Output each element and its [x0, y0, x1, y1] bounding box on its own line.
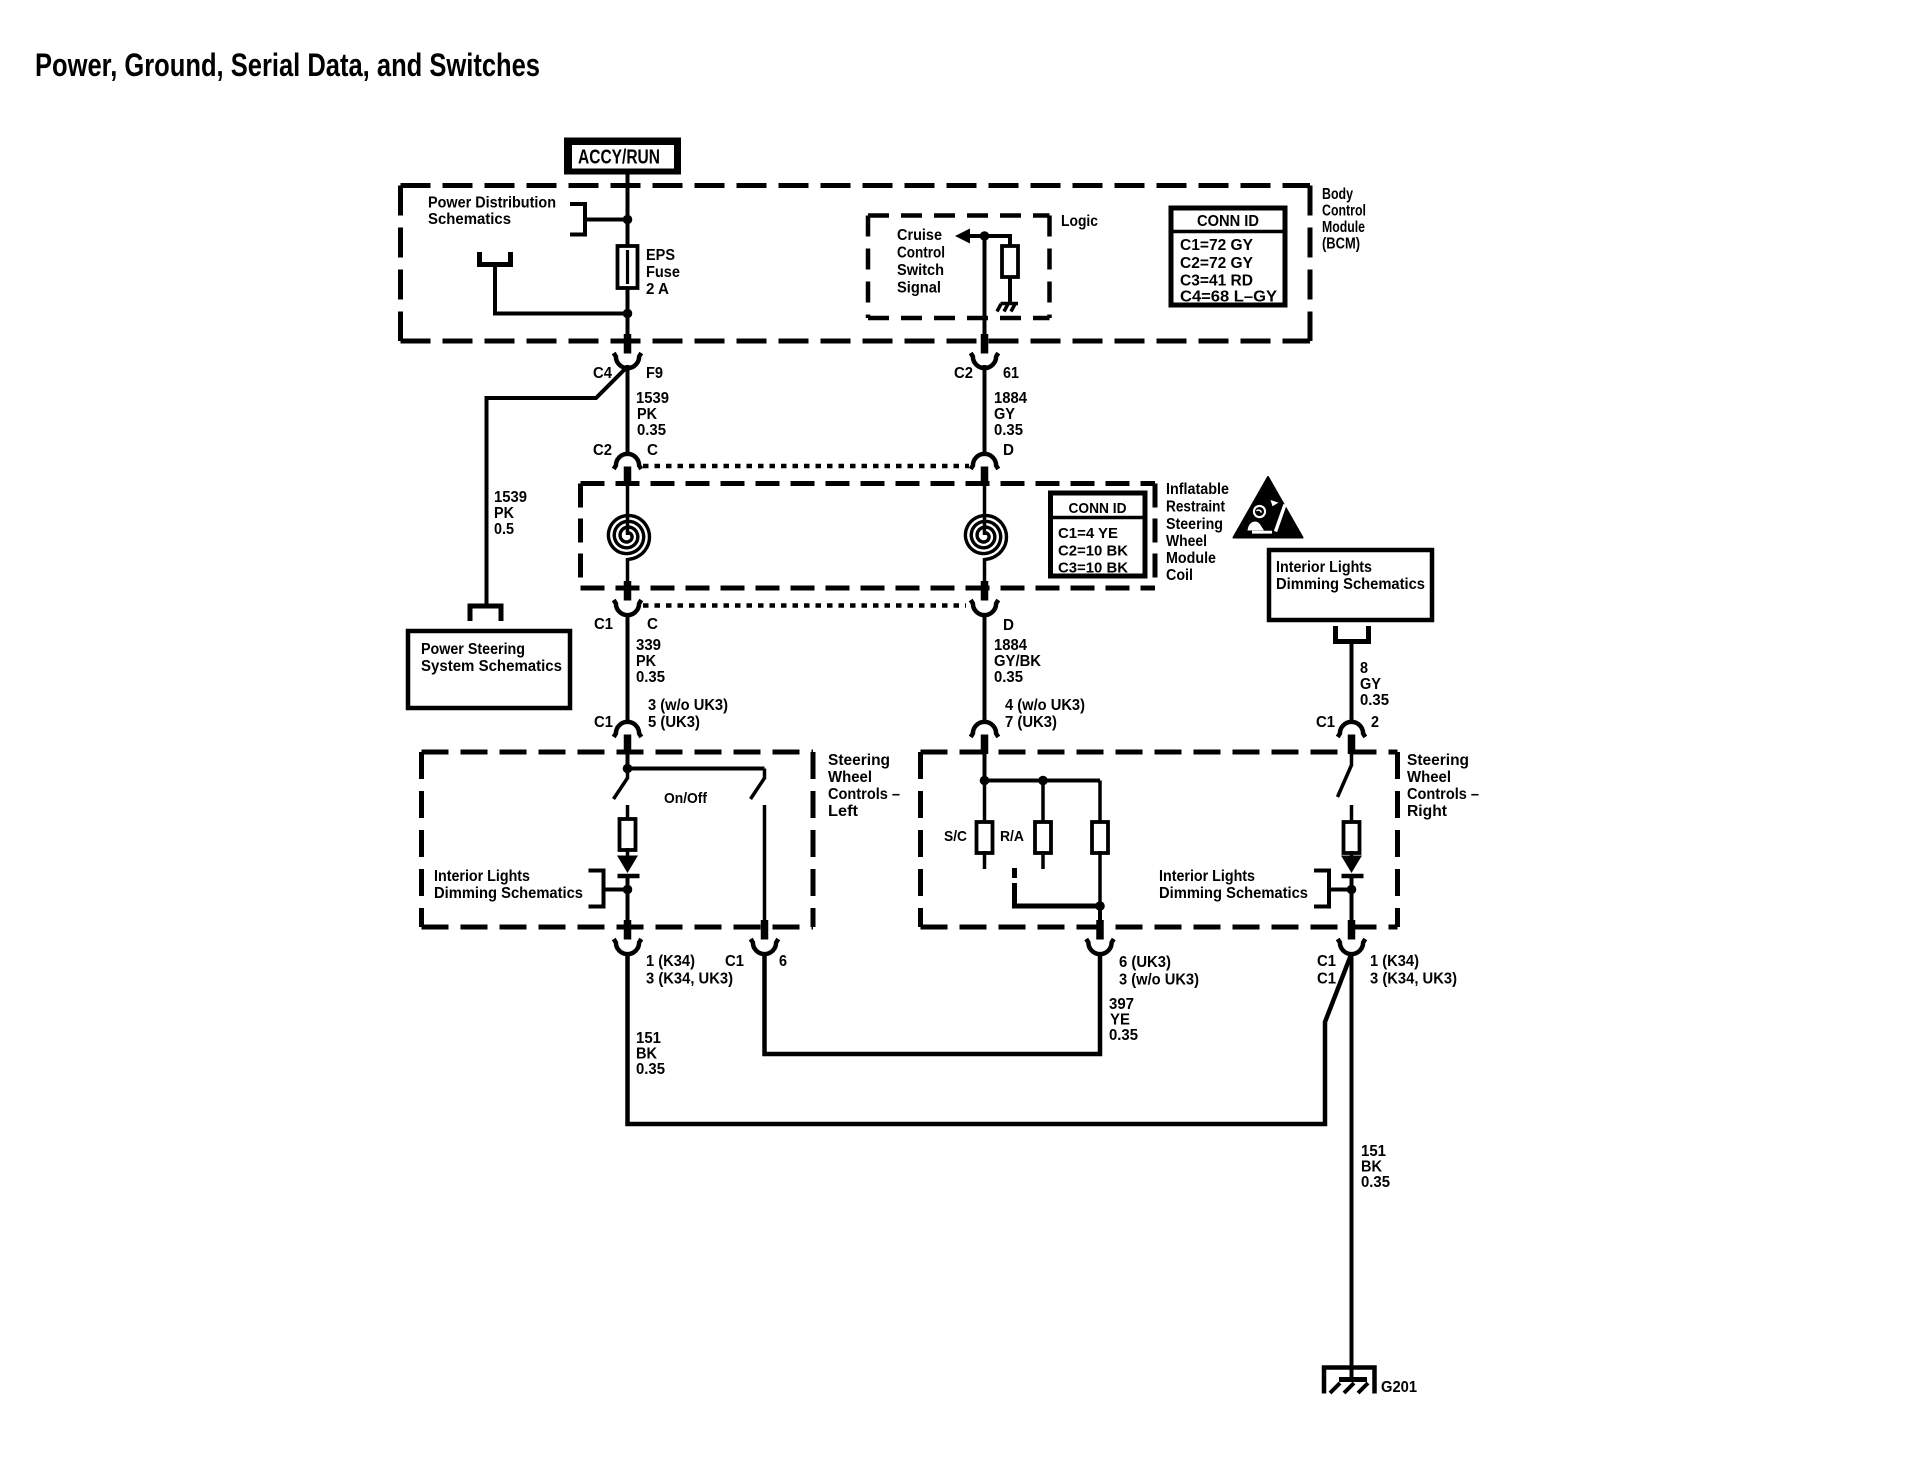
- svg-text:3 (w/o UK3): 3 (w/o UK3): [1119, 972, 1199, 989]
- svg-text:Steering: Steering: [1166, 516, 1223, 533]
- connector C4/F9 (pin): [624, 334, 632, 354]
- connector C2/61 (socket arc): [971, 353, 999, 368]
- wire out of right coil: [983, 558, 987, 586]
- coil (right spiral): [965, 516, 1006, 560]
- connector interface dotted line (bottom): [643, 603, 966, 608]
- wiper arrow: [1350, 851, 1354, 858]
- wire lower contact (right): [1350, 805, 1354, 823]
- wire feed right: [493, 312, 628, 316]
- bracket symbol (dimming left): [589, 871, 604, 907]
- svg-text:8: 8: [1360, 660, 1368, 677]
- svg-text:3 (K34, UK3): 3 (K34, UK3): [646, 971, 733, 988]
- svg-text:Switch: Switch: [897, 262, 944, 279]
- svg-text:6 (UK3): 6 (UK3): [1119, 954, 1171, 971]
- wire contact tick: [1012, 868, 1017, 878]
- wire into right coil: [983, 486, 987, 535]
- switch (right box blade): [1350, 753, 1354, 766]
- connector 4-7 (pin): [981, 735, 989, 755]
- CONN ID table (BCM): [1171, 208, 1285, 305]
- svg-text:0.35: 0.35: [1360, 692, 1389, 709]
- resistor R/A: [1035, 822, 1051, 853]
- svg-text:PK: PK: [637, 406, 657, 423]
- fuse EPS 2 A: [618, 246, 638, 288]
- svg-text:1539: 1539: [494, 489, 527, 506]
- wire resistor ladder bus: [985, 779, 1101, 783]
- svg-text:BK: BK: [1361, 1159, 1382, 1176]
- svg-text:C1: C1: [1316, 714, 1335, 731]
- connector left 1/3 (socket arc): [614, 939, 642, 954]
- svg-text:3 (w/o UK3): 3 (w/o UK3): [648, 697, 728, 714]
- wire second pole down: [763, 805, 767, 922]
- svg-text:ACCY/RUN: ACCY/RUN: [578, 147, 660, 169]
- svg-text:Steering: Steering: [828, 752, 890, 769]
- wire 8 GY 0.35: [1350, 641, 1354, 725]
- svg-text:Module: Module: [1166, 550, 1216, 567]
- svg-text:0.35: 0.35: [636, 1061, 665, 1078]
- bracket symbol (Power Distribution): [570, 204, 585, 235]
- off-page connector symbol (dimming): [1336, 626, 1369, 642]
- svg-text:Logic: Logic: [1061, 213, 1098, 230]
- connector C1/C (pin): [624, 581, 632, 601]
- svg-text:Controls –: Controls –: [1407, 786, 1479, 803]
- svg-text:339: 339: [636, 637, 661, 654]
- svg-text:0.35: 0.35: [1361, 1174, 1390, 1191]
- wire bracket to fuse node: [585, 218, 628, 222]
- svg-text:Right: Right: [1407, 803, 1448, 820]
- wire 1884 GY 0.35: [983, 365, 987, 455]
- svg-text:C: C: [647, 616, 658, 633]
- connector D (entry) (pin): [981, 467, 989, 487]
- svg-text:0.35: 0.35: [1109, 1027, 1138, 1044]
- connector C1/6 (pin): [761, 920, 769, 940]
- svg-text:0.35: 0.35: [994, 669, 1023, 686]
- connector C2/C (socket arc): [614, 454, 642, 469]
- wire 339 PK 0.35: [626, 613, 630, 724]
- svg-text:F9: F9: [646, 365, 663, 382]
- junction: [623, 764, 633, 774]
- svg-text:C: C: [647, 442, 658, 459]
- dashed box: Steering Wheel Controls - Right: [921, 752, 1398, 927]
- svg-text:C3=10 BK: C3=10 BK: [1058, 560, 1128, 577]
- wire R/A stub: [1041, 851, 1045, 869]
- svg-text:397: 397: [1109, 996, 1134, 1013]
- svg-text:CONN ID: CONN ID: [1197, 213, 1259, 230]
- svg-text:CONN ID: CONN ID: [1069, 500, 1127, 517]
- ground G201: [1324, 1368, 1375, 1394]
- junction: [980, 231, 990, 241]
- svg-text:GY: GY: [994, 406, 1015, 423]
- svg-text:C2=10 BK: C2=10 BK: [1058, 543, 1128, 560]
- svg-text:3 (K34, UK3): 3 (K34, UK3): [1370, 971, 1457, 988]
- svg-text:Control: Control: [1322, 203, 1366, 220]
- connector C1/6 (socket arc): [751, 939, 779, 954]
- svg-text:Coil: Coil: [1166, 567, 1193, 584]
- svg-text:Dimming Schematics: Dimming Schematics: [1276, 576, 1425, 593]
- svg-text:151: 151: [1361, 1143, 1386, 1160]
- wire S/C branch: [983, 781, 987, 824]
- wire entry to switch node: [626, 753, 630, 770]
- wire 1884 GY/BK 0.35: [983, 613, 987, 724]
- svg-text:Restraint: Restraint: [1166, 499, 1226, 516]
- junction: [1095, 901, 1105, 911]
- junction: [1347, 885, 1357, 895]
- svg-text:PK: PK: [494, 505, 514, 522]
- connector C4/F9 (socket arc): [614, 353, 642, 368]
- junction: [980, 776, 990, 786]
- connector C2/C (pin): [624, 467, 632, 487]
- svg-text:0.35: 0.35: [636, 669, 665, 686]
- switch On/Off (right blade): [763, 769, 767, 780]
- wire through fuse: [626, 246, 630, 336]
- bracket symbol (dimming right): [1314, 871, 1329, 907]
- connector 4-7 (socket arc): [971, 722, 999, 737]
- connector 6/3 (pin): [1096, 920, 1104, 940]
- connector C1/C (socket arc): [614, 600, 642, 615]
- svg-text:C1: C1: [1317, 971, 1336, 988]
- wire to exit: [1098, 906, 1102, 922]
- svg-text:Inflatable: Inflatable: [1166, 481, 1229, 498]
- wire 151 BK 0.35 (to G201): [1350, 953, 1354, 1380]
- svg-text:PK: PK: [636, 653, 656, 670]
- svg-text:EPS: EPS: [646, 247, 675, 264]
- svg-text:0.35: 0.35: [994, 422, 1023, 439]
- box Power Steering System Schematics: [408, 631, 570, 708]
- wire S/C stub: [983, 851, 987, 869]
- wire out of left coil: [626, 558, 630, 586]
- svg-text:Controls –: Controls –: [828, 786, 900, 803]
- svg-text:Body: Body: [1322, 186, 1353, 203]
- wire 151 BK 0.35 (left): [628, 953, 1352, 1125]
- svg-text:6: 6: [779, 953, 787, 970]
- svg-text:Interior Lights: Interior Lights: [1276, 559, 1372, 576]
- connector C1 right (socket arc): [1338, 939, 1366, 954]
- svg-text:Fuse: Fuse: [646, 264, 680, 281]
- junction: [623, 215, 633, 225]
- connector D (exit) (pin): [981, 581, 989, 601]
- warning symbol (airbag caution triangle): [1234, 477, 1303, 538]
- connector 6/3 (socket arc): [1086, 939, 1114, 954]
- svg-text:BK: BK: [636, 1046, 657, 1063]
- svg-text:1884: 1884: [994, 390, 1027, 407]
- svg-text:Cruise: Cruise: [897, 227, 942, 244]
- wire into left coil: [626, 486, 630, 535]
- svg-text:(BCM): (BCM): [1322, 236, 1360, 253]
- resistor dimmer (left): [620, 819, 636, 850]
- wire third branch: [1098, 781, 1102, 824]
- CONN ID table (coil module): [1051, 493, 1146, 576]
- svg-text:C4: C4: [593, 365, 612, 382]
- svg-text:Control: Control: [897, 245, 945, 262]
- signal arrow: [955, 229, 970, 244]
- wire entry D: [983, 753, 987, 782]
- svg-text:C1: C1: [725, 953, 744, 970]
- power feed box ACCY/RUN: [564, 138, 681, 175]
- svg-text:61: 61: [1003, 365, 1019, 382]
- svg-text:151: 151: [636, 1030, 661, 1047]
- svg-text:1884: 1884: [994, 637, 1027, 654]
- resistor logic pull-down: [1002, 246, 1018, 277]
- svg-text:C2=72 GY: C2=72 GY: [1180, 255, 1253, 272]
- svg-text:Wheel: Wheel: [1407, 769, 1451, 786]
- dashed box: Logic: [868, 216, 1050, 319]
- svg-text:D: D: [1003, 442, 1014, 459]
- resistor S/C: [977, 822, 993, 853]
- wire wiper down: [1350, 876, 1354, 922]
- svg-text:YE: YE: [1110, 1012, 1130, 1029]
- connector interface dotted line (top): [643, 464, 969, 469]
- switch On/Off (left blade): [626, 769, 630, 780]
- svg-text:G201: G201: [1381, 1379, 1417, 1396]
- svg-text:C1: C1: [594, 714, 613, 731]
- svg-text:Signal: Signal: [897, 280, 941, 297]
- wiper bar: [1342, 874, 1364, 879]
- svg-text:Power Distribution: Power Distribution: [428, 195, 556, 212]
- svg-text:R/A: R/A: [1000, 828, 1024, 845]
- svg-text:1539: 1539: [636, 390, 669, 407]
- wire ACCY/RUN to fuse: [626, 174, 630, 248]
- svg-text:1 (K34): 1 (K34): [646, 953, 695, 970]
- svg-text:C1: C1: [594, 616, 613, 633]
- svg-text:Interior Lights: Interior Lights: [1159, 868, 1255, 885]
- wire bracket to wiper: [1329, 888, 1352, 892]
- svg-text:Dimming Schematics: Dimming Schematics: [1159, 885, 1308, 902]
- wire arrow to resistor: [968, 234, 1010, 238]
- svg-text:4 (w/o UK3): 4 (w/o UK3): [1005, 697, 1085, 714]
- coil (left spiral): [608, 516, 649, 560]
- svg-text:Power Steering: Power Steering: [421, 641, 525, 658]
- svg-text:C1: C1: [1317, 953, 1336, 970]
- svg-text:2: 2: [1371, 714, 1379, 731]
- dashed box: Inflatable Restraint Steering Wheel Module Coil: [581, 484, 1156, 589]
- svg-text:7 (UK3): 7 (UK3): [1005, 714, 1057, 731]
- svg-text:0.35: 0.35: [637, 422, 666, 439]
- wire feed down: [493, 265, 497, 314]
- wire resistor to ground: [1008, 277, 1012, 303]
- resistor (third): [1092, 822, 1108, 853]
- dashed box: Steering Wheel Controls - Left: [422, 752, 814, 927]
- svg-text:Schematics: Schematics: [428, 211, 511, 228]
- resistor dimmer (right): [1344, 822, 1360, 853]
- svg-text:Interior Lights: Interior Lights: [434, 868, 530, 885]
- dashed box: Body Control Module (BCM): [401, 186, 1311, 342]
- wire to pull resistor: [1008, 234, 1012, 248]
- wire 1539 PK 0.35: [626, 365, 630, 455]
- wire R/A branch: [1041, 781, 1045, 824]
- junction: [1038, 776, 1048, 786]
- junction: [623, 885, 633, 895]
- svg-text:On/Off: On/Off: [664, 790, 708, 807]
- connector D (entry) (socket arc): [971, 454, 999, 469]
- svg-text:D: D: [1003, 617, 1014, 634]
- svg-text:0.5: 0.5: [494, 521, 514, 538]
- connector D (exit) (socket arc): [971, 600, 999, 615]
- box Interior Lights Dimming Schematics (right): [1269, 550, 1432, 620]
- off-page connector symbol (feed): [480, 252, 511, 265]
- wire bracket to wiper: [604, 888, 628, 892]
- connector C2/61 (pin): [981, 334, 989, 354]
- svg-text:Module: Module: [1322, 219, 1365, 236]
- connector C1/3-5 (socket arc): [614, 722, 642, 737]
- off-page connector symbol (power steering): [470, 606, 501, 621]
- svg-text:System Schematics: System Schematics: [421, 658, 562, 675]
- svg-text:5 (UK3): 5 (UK3): [648, 714, 700, 731]
- wire lower contact (left): [626, 805, 630, 821]
- wire 397 YE 0.35: [765, 953, 1101, 1055]
- wiper bar: [618, 874, 640, 879]
- svg-text:Steering: Steering: [1407, 752, 1469, 769]
- connector C1/2 (socket arc): [1338, 722, 1366, 737]
- wire to second pole: [628, 767, 765, 771]
- svg-text:C2: C2: [593, 442, 612, 459]
- svg-text:Dimming Schematics: Dimming Schematics: [434, 885, 583, 902]
- svg-text:Left: Left: [828, 803, 859, 820]
- svg-text:S/C: S/C: [944, 828, 967, 845]
- connector C1/3-5 (pin): [624, 735, 632, 755]
- svg-text:GY: GY: [1360, 676, 1381, 693]
- svg-text:2 A: 2 A: [646, 281, 669, 298]
- ground (logic): [997, 304, 1018, 312]
- junction: [623, 309, 633, 319]
- svg-text:C4=68 L–GY: C4=68 L–GY: [1180, 289, 1277, 306]
- svg-text:Power, Ground, Serial Data, an: Power, Ground, Serial Data, and Switches: [35, 47, 540, 83]
- svg-text:Wheel: Wheel: [828, 769, 872, 786]
- svg-text:Wheel: Wheel: [1166, 533, 1207, 550]
- connector C1 right (pin): [1348, 920, 1356, 940]
- svg-text:1 (K34): 1 (K34): [1370, 953, 1419, 970]
- connector left 1/3 (pin): [624, 920, 632, 940]
- wire third branch down: [1098, 851, 1102, 908]
- wiper arrow: [626, 848, 630, 858]
- svg-text:C1=72 GY: C1=72 GY: [1180, 237, 1253, 254]
- wire wiper down: [626, 876, 630, 922]
- wire cruise signal down: [983, 236, 987, 336]
- wire elbow to third branch: [1015, 883, 1101, 906]
- svg-text:C3=41 RD: C3=41 RD: [1180, 273, 1253, 290]
- wire branch to Power Steering (diagonal): [487, 367, 628, 607]
- svg-text:GY/BK: GY/BK: [994, 653, 1041, 670]
- svg-text:C2: C2: [954, 365, 973, 382]
- svg-text:C1=4 YE: C1=4 YE: [1058, 525, 1118, 542]
- connector C1/2 (pin): [1348, 735, 1356, 755]
